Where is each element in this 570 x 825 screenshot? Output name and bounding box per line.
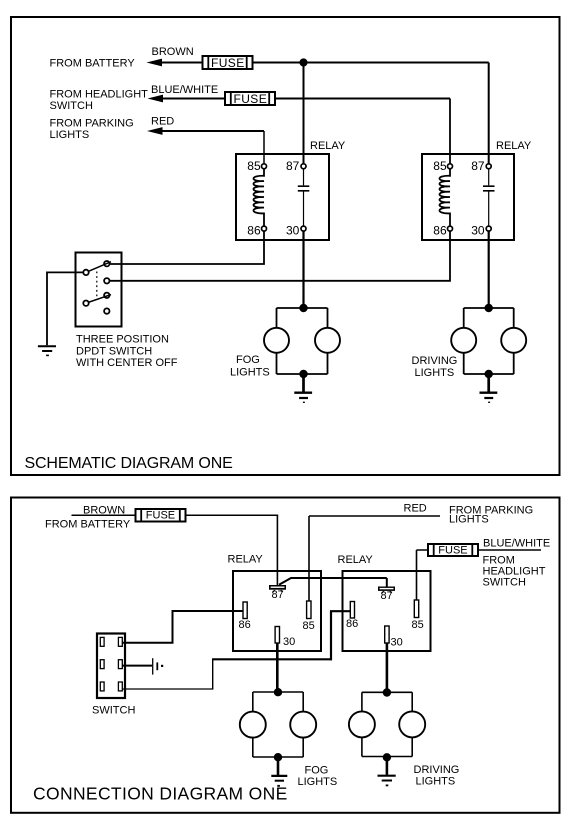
pin R1	[118, 637, 122, 646]
svg-text:BROWN: BROWN	[152, 46, 194, 58]
lamp L1	[264, 328, 289, 353]
pin 30 blade K3	[275, 627, 279, 644]
wire: fuse F3 to relay K3 pin 87 drop	[186, 514, 279, 516]
wire: relay K4 pin 30 down to driving lights	[386, 643, 389, 691]
svg-text:SCHEMATIC DIAGRAM ONE: SCHEMATIC DIAGRAM ONE	[25, 455, 233, 472]
pole contact top	[83, 270, 88, 275]
node: fog lights bottom junction (connection)	[274, 753, 282, 761]
svg-text:BLUE/WHITE: BLUE/WHITE	[151, 84, 218, 96]
svg-text:30: 30	[471, 224, 485, 238]
wire: switch pin R2 to battery cell	[123, 665, 153, 667]
wire: jumper K3 87 to K4 87	[279, 578, 387, 587]
svg-text:87: 87	[286, 159, 300, 173]
wire: brown feed from battery	[161, 62, 489, 64]
lamp L4	[501, 328, 526, 353]
svg-text:FROM PARKING: FROM PARKING	[50, 118, 134, 130]
pin 30 blade K4	[385, 626, 389, 643]
wire: red from parking lights	[309, 515, 440, 517]
battery cell B1	[153, 658, 164, 674]
svg-text:30: 30	[391, 637, 403, 649]
panel border: connection diagram one	[11, 498, 560, 813]
pin 87 terminal	[486, 164, 491, 169]
svg-text:CONNECTION DIAGRAM ONE: CONNECTION DIAGRAM ONE	[33, 784, 288, 804]
wire: red drop down to K3 85 blade	[308, 516, 310, 601]
wire: switch pole to ground	[47, 272, 84, 345]
node: driving lights bottom junction (connection)	[383, 753, 391, 761]
svg-text:RED: RED	[151, 115, 174, 127]
coil K2 (85-86)	[440, 168, 451, 226]
svg-text:DRIVING: DRIVING	[412, 355, 458, 367]
pin 30 terminal	[301, 226, 306, 231]
node: fog lights top junction	[299, 304, 307, 312]
wire: relay K1 pin 30 down to fog lights	[302, 231, 304, 307]
svg-text:LIGHTS: LIGHTS	[449, 514, 489, 526]
relay K3	[228, 554, 322, 651]
svg-text:DPDT SWITCH: DPDT SWITCH	[76, 345, 152, 357]
panel border: schematic diagram one	[11, 17, 560, 475]
svg-text:87: 87	[381, 590, 393, 602]
node: driving lights top junction	[485, 304, 493, 312]
lamp L3	[451, 328, 476, 353]
capacitor K1 (87-30)	[303, 168, 305, 226]
svg-text:FUSE: FUSE	[438, 544, 467, 556]
wire: fuse F4 to headlight switch	[478, 549, 541, 551]
lamp L5	[240, 712, 266, 738]
arrow: from headlight switch	[148, 95, 164, 103]
pin 85 terminal	[262, 164, 267, 169]
node: fog lights junction (connection)	[274, 688, 282, 696]
pin 86 terminal	[448, 226, 453, 231]
arrow: from battery	[147, 59, 163, 67]
svg-text:THREE POSITION: THREE POSITION	[76, 333, 169, 345]
svg-text:LIGHTS: LIGHTS	[50, 129, 90, 141]
wire: junction down to relay K1 pin 87	[303, 63, 305, 165]
fog lights assembly	[264, 308, 340, 374]
wire: switch throw B to relay K2 pin 86	[109, 231, 450, 281]
wire: switch pin R1 to relay K3 pin 86	[123, 611, 244, 643]
node: driving lights bottom junction	[485, 370, 493, 378]
lamp L8	[399, 711, 425, 737]
pin 87 terminal	[301, 164, 306, 169]
svg-text:86: 86	[239, 619, 251, 631]
svg-text:FROM HEADLIGHT: FROM HEADLIGHT	[50, 88, 149, 100]
pin L2	[100, 660, 104, 669]
svg-text:LIGHTS: LIGHTS	[230, 366, 270, 378]
svg-text:FUSE: FUSE	[211, 56, 245, 70]
pin R3	[118, 682, 122, 691]
svg-text:86: 86	[433, 224, 447, 238]
pin L3	[100, 682, 104, 691]
ground: fog lights (connection)	[271, 757, 287, 787]
svg-text:30: 30	[286, 224, 300, 238]
wire: blue/white down to relay K2 pin 85	[449, 99, 451, 165]
pin 86 blade K3	[243, 602, 247, 619]
node: driving lights junction (connection)	[383, 688, 391, 696]
switch S1: three position DPDT	[76, 253, 122, 327]
svg-text:RELAY: RELAY	[496, 140, 532, 152]
pin 86 terminal	[262, 226, 267, 231]
mechanical link (dotted)	[96, 272, 98, 299]
svg-text:RED: RED	[404, 503, 427, 515]
ground: driving lights	[480, 374, 498, 402]
pin R2	[118, 660, 122, 669]
svg-text:LIGHTS: LIGHTS	[298, 776, 338, 788]
svg-text:FUSE: FUSE	[146, 510, 175, 522]
relay K4	[338, 554, 431, 651]
wire: switch pin R3 to relay K4 pin 86	[123, 688, 214, 690]
fuse F2	[225, 92, 275, 106]
svg-text:HEADLIGHT: HEADLIGHT	[483, 565, 546, 577]
pin 87 blade K4	[378, 587, 395, 591]
pin 85 blade K3	[307, 601, 311, 619]
ground: switch	[38, 346, 56, 355]
capacitor K2 (87-30)	[488, 168, 490, 226]
pin 30 terminal	[486, 226, 491, 231]
wire: drop down to K3 87 blade	[276, 515, 278, 585]
wire: relay K2 pin 30 down to driving lights	[488, 231, 490, 308]
svg-text:FOG: FOG	[305, 765, 329, 777]
arrow: from parking lights	[147, 127, 163, 135]
svg-text:30: 30	[283, 636, 295, 648]
pin L1	[100, 637, 104, 646]
lamp L6	[290, 712, 316, 738]
node: fog lights bottom junction	[299, 370, 307, 378]
svg-text:SWITCH: SWITCH	[50, 100, 93, 112]
svg-text:86: 86	[247, 224, 261, 238]
svg-text:SWITCH: SWITCH	[483, 577, 526, 589]
wire: fuse F4 to relay K4 pin 85	[417, 550, 429, 600]
ground: driving lights (connection)	[378, 757, 396, 786]
svg-text:WITH CENTER OFF: WITH CENTER OFF	[76, 357, 178, 369]
svg-text:RELAY: RELAY	[310, 140, 346, 152]
svg-text:FROM BATTERY: FROM BATTERY	[50, 58, 136, 70]
switch S2	[97, 634, 125, 699]
svg-text:RELAY: RELAY	[228, 554, 264, 566]
relay K2	[422, 140, 532, 240]
svg-text:LIGHTS: LIGHTS	[416, 776, 456, 788]
driving lights assembly	[451, 308, 526, 374]
svg-text:87: 87	[272, 589, 284, 601]
throw contacts	[104, 261, 109, 266]
ground: fog lights	[294, 374, 312, 402]
driving lights assembly (connection)	[349, 692, 425, 756]
lever pole 1	[88, 262, 111, 272]
svg-text:BLUE/WHITE: BLUE/WHITE	[483, 538, 550, 550]
wire: relay K3 pin 30 down to fog lights	[276, 643, 279, 690]
wire: red from parking lights	[162, 130, 264, 132]
svg-text:87: 87	[471, 159, 485, 173]
pin 87 blade K3	[269, 585, 286, 590]
pin 85 blade K4	[414, 600, 418, 618]
svg-text:DRIVING: DRIVING	[414, 764, 460, 776]
lamp L7	[349, 711, 375, 737]
coil K1 (85-86)	[254, 168, 265, 226]
wire: brown from battery to fuse F3	[72, 514, 136, 516]
svg-text:85: 85	[433, 159, 447, 173]
svg-text:FOG: FOG	[236, 354, 260, 366]
relay K1	[236, 140, 346, 240]
lamp L2	[315, 328, 340, 353]
svg-text:FROM BATTERY: FROM BATTERY	[45, 519, 131, 531]
svg-text:85: 85	[247, 159, 261, 173]
wire: switch throw A to relay K1 pin 86	[109, 231, 264, 264]
svg-text:LIGHTS: LIGHTS	[415, 367, 455, 379]
fuse F3	[136, 509, 186, 522]
svg-text:86: 86	[346, 618, 358, 630]
wire: feed down to relay K2 pin 87	[488, 63, 490, 165]
svg-text:85: 85	[303, 620, 315, 632]
fog lights assembly (connection)	[240, 692, 316, 757]
pin 85 terminal	[448, 164, 453, 169]
pin 86 blade K4	[350, 602, 354, 619]
wire: red down to relay K1 pin 85	[263, 131, 265, 164]
wire: blue/white from headlight switch	[162, 98, 450, 100]
lever pole 2	[88, 295, 111, 303]
svg-text:RELAY: RELAY	[338, 554, 374, 566]
svg-text:SWITCH: SWITCH	[92, 705, 135, 717]
fuse F4	[428, 544, 478, 556]
svg-text:FUSE: FUSE	[234, 92, 268, 106]
svg-text:85: 85	[412, 619, 424, 631]
pole contact bottom	[83, 301, 88, 306]
fuse F1	[203, 56, 253, 70]
node: battery feed junction	[299, 58, 307, 66]
